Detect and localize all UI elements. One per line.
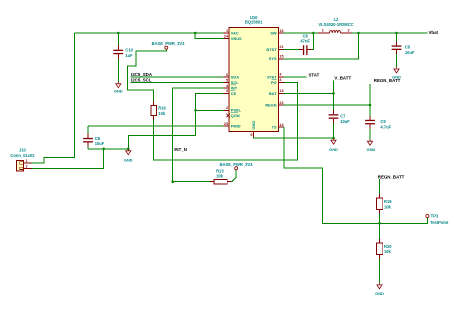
- svg-text:3: 3: [226, 89, 228, 93]
- ground R20: [375, 283, 384, 296]
- svg-text:QON: QON: [231, 113, 240, 118]
- wire C8 top stub: [87, 126, 89, 134]
- pin GND 9 bottom: [250, 121, 256, 137]
- svg-text:47nF: 47nF: [300, 38, 310, 43]
- pin STAT 8: [267, 73, 284, 80]
- node junction pin2-gnd: [102, 148, 105, 151]
- svg-text:VLS4020-1R2MCC: VLS4020-1R2MCC: [318, 22, 353, 27]
- svg-text:REGN: REGN: [265, 102, 276, 107]
- svg-text:C10: C10: [125, 48, 133, 53]
- svg-text:VAC: VAC: [231, 30, 239, 35]
- wire R19 bottom: [379, 214, 381, 224]
- svg-text:GND: GND: [114, 88, 123, 93]
- power label BASE_PWR_3V3 bottom: [220, 162, 253, 170]
- wire SYS: [284, 33, 359, 59]
- svg-text:23: 23: [224, 122, 228, 126]
- node junction BTST-rail: [312, 32, 315, 35]
- node junction gnd-CE: [127, 148, 130, 151]
- svg-text:BASE_PWR_3V3: BASE_PWR_3V3: [220, 162, 253, 167]
- svg-text:9: 9: [250, 133, 252, 137]
- wire BTST left: [284, 48, 300, 50]
- pin PG 10: [271, 78, 284, 85]
- svg-text:6: 6: [226, 73, 228, 77]
- wire R13 right to label: [231, 170, 236, 182]
- node junction REGN: [369, 104, 372, 107]
- svg-text:GND: GND: [124, 158, 133, 163]
- svg-text:PMID: PMID: [231, 123, 241, 128]
- svg-text:TestPoint: TestPoint: [430, 220, 449, 225]
- pin CE 3: [223, 89, 236, 96]
- wire input rail VAC/VBUS: [75, 32, 224, 34]
- svg-text:C9: C9: [380, 119, 386, 124]
- pin VAC 1: [223, 29, 239, 36]
- capacitor C6 bootstrap: [299, 34, 311, 55]
- wire BTST to rail: [311, 33, 313, 49]
- svg-text:R19: R19: [384, 199, 392, 204]
- pin SYS 15: [269, 55, 284, 62]
- pin SW 16: [270, 29, 283, 36]
- pin SDA 6: [223, 73, 239, 80]
- svg-text:C7: C7: [340, 113, 346, 118]
- svg-text:2: 2: [226, 106, 228, 110]
- svg-text:INT_N: INT_N: [174, 147, 187, 152]
- pin QON 7 no-connect: [226, 113, 239, 119]
- svg-text:Vbat: Vbat: [429, 30, 439, 35]
- node junction INT-R13: [171, 180, 174, 183]
- svg-text:J10: J10: [19, 148, 27, 153]
- wire TS staircase: [284, 127, 428, 223]
- svg-text:2: 2: [348, 28, 350, 32]
- svg-text:2: 2: [25, 164, 27, 168]
- svg-text:GND: GND: [329, 147, 338, 152]
- wire C7 bottom: [333, 123, 335, 138]
- node junction rail-VBUS: [194, 32, 197, 35]
- ground C9: [367, 139, 376, 152]
- svg-text:5: 5: [226, 78, 228, 82]
- wire R16 bottom to PG: [154, 82, 298, 159]
- svg-text:SYS: SYS: [269, 56, 277, 61]
- node junction BAT: [332, 92, 335, 95]
- svg-text:TP3: TP3: [431, 214, 439, 219]
- svg-text:INT: INT: [231, 85, 238, 90]
- wire left drop to connector pin1: [31, 33, 74, 163]
- wire INT to INT_N: [173, 88, 224, 182]
- wire SCL: [131, 82, 224, 84]
- wire BAT to V_BATT/C7: [284, 92, 334, 94]
- svg-text:STAT: STAT: [267, 74, 277, 79]
- svg-text:PG: PG: [271, 80, 277, 85]
- svg-text:GND: GND: [392, 75, 401, 80]
- svg-text:REGN_BATT: REGN_BATT: [378, 175, 405, 180]
- wire STAT: [284, 76, 307, 78]
- wire REGN_BATT to R19: [379, 179, 381, 194]
- resistor R16: [151, 101, 167, 119]
- svg-text:10k: 10k: [158, 111, 166, 116]
- node junction C7 gnd: [332, 137, 335, 140]
- svg-text:10k: 10k: [384, 249, 392, 254]
- node junction SYS-rail: [357, 32, 360, 35]
- svg-text:1: 1: [322, 28, 324, 32]
- wire C8 gnd: [88, 148, 128, 150]
- wire C9 bottom: [369, 128, 371, 139]
- pin PSEL 2: [223, 106, 241, 113]
- node junction rail-C10: [117, 32, 120, 35]
- svg-text:SDA: SDA: [231, 74, 239, 79]
- pin INT 4: [223, 84, 237, 91]
- wire PSEL tie: [196, 109, 224, 111]
- svg-text:GND: GND: [375, 291, 384, 296]
- wire CE to gnd: [128, 93, 223, 148]
- test point TP3: [426, 214, 449, 226]
- svg-text:R20: R20: [384, 244, 392, 249]
- pin REGN 22: [265, 101, 283, 108]
- svg-text:1: 1: [25, 159, 27, 163]
- node junction C5: [395, 32, 398, 35]
- svg-text:10uF: 10uF: [340, 119, 350, 124]
- power label BASE_PWR_3V3 top: [152, 41, 185, 49]
- svg-text:SCL: SCL: [231, 80, 239, 85]
- svg-text:1: 1: [226, 29, 228, 33]
- pin VBUS 24: [223, 35, 242, 42]
- pin BTST 21: [266, 45, 283, 52]
- ground IC: [329, 138, 338, 151]
- capacitor C8: [83, 134, 105, 147]
- svg-text:GND: GND: [251, 121, 256, 130]
- svg-text:3: 3: [279, 78, 281, 82]
- capacitor C7: [329, 110, 351, 124]
- capacitor C10: [113, 33, 133, 82]
- connector J10: [10, 148, 35, 171]
- pin BAT 13: [269, 89, 284, 96]
- svg-text:I2C5_SCL: I2C5_SCL: [131, 78, 152, 83]
- svg-text:BAT: BAT: [269, 91, 277, 96]
- svg-text:SW: SW: [270, 30, 277, 35]
- wire rail right to Vbat: [352, 32, 428, 34]
- svg-text:Conn_01x02: Conn_01x02: [10, 153, 35, 158]
- wire 3V3 feed to R16: [127, 49, 166, 101]
- svg-text:BQ25601: BQ25601: [245, 20, 263, 25]
- svg-text:TS: TS: [272, 124, 277, 129]
- wire SW rail left: [284, 32, 319, 34]
- svg-text:10k: 10k: [216, 173, 224, 178]
- resistor R20: [377, 239, 393, 259]
- svg-text:10k: 10k: [384, 204, 392, 209]
- inductor L2: [318, 17, 354, 33]
- resistor R13: [210, 168, 231, 184]
- node junction CE-PSEL: [194, 109, 197, 112]
- wire REGN to C9: [284, 104, 371, 106]
- wire PMID: [88, 125, 223, 127]
- op-amp U10 main IC BQ25601: [229, 15, 278, 131]
- svg-text:10uF: 10uF: [95, 141, 105, 146]
- svg-text:GND: GND: [367, 147, 376, 152]
- ground C5: [392, 67, 401, 79]
- svg-text:PSEL: PSEL: [231, 108, 242, 113]
- svg-text:V_BATT: V_BATT: [334, 76, 351, 81]
- ground C10: [114, 82, 123, 93]
- svg-text:13: 13: [279, 89, 283, 93]
- svg-text:CE: CE: [231, 91, 237, 96]
- wire VBUS drop: [195, 33, 223, 39]
- pin SCL 5: [223, 78, 239, 85]
- svg-text:10uF: 10uF: [405, 50, 415, 55]
- wire SDA: [131, 76, 224, 78]
- capacitor C5: [392, 33, 415, 67]
- svg-text:4.7uF: 4.7uF: [380, 124, 391, 129]
- svg-text:15: 15: [279, 55, 283, 59]
- svg-text:22: 22: [279, 101, 283, 105]
- wire connector pin2 to gnd node: [31, 149, 103, 169]
- node junction divider: [378, 222, 381, 225]
- svg-text:R16: R16: [158, 105, 166, 110]
- svg-text:STAT: STAT: [309, 72, 320, 77]
- svg-text:I2C5_SDA: I2C5_SDA: [131, 72, 153, 77]
- svg-text:VBUS: VBUS: [231, 36, 242, 41]
- wire IC gnd pin to gnd: [254, 137, 334, 138]
- wire R13 left: [173, 181, 210, 183]
- svg-text:16: 16: [279, 29, 283, 33]
- pin PMID 23: [223, 122, 240, 129]
- svg-text:21: 21: [279, 45, 283, 49]
- svg-text:C8: C8: [95, 136, 101, 141]
- capacitor C9: [365, 116, 391, 130]
- wire C8 bottom stub: [87, 147, 89, 149]
- svg-text:C5: C5: [405, 45, 411, 50]
- wire R20 bottom: [379, 259, 381, 284]
- svg-text:BASE_PWR_3V3: BASE_PWR_3V3: [152, 41, 185, 46]
- ground C8/CE: [124, 149, 133, 163]
- resistor R19: [377, 194, 393, 214]
- svg-text:1uF: 1uF: [125, 53, 133, 58]
- pin TS 14: [272, 123, 285, 130]
- svg-text:BTST: BTST: [266, 47, 277, 52]
- wire R20 top: [379, 223, 381, 239]
